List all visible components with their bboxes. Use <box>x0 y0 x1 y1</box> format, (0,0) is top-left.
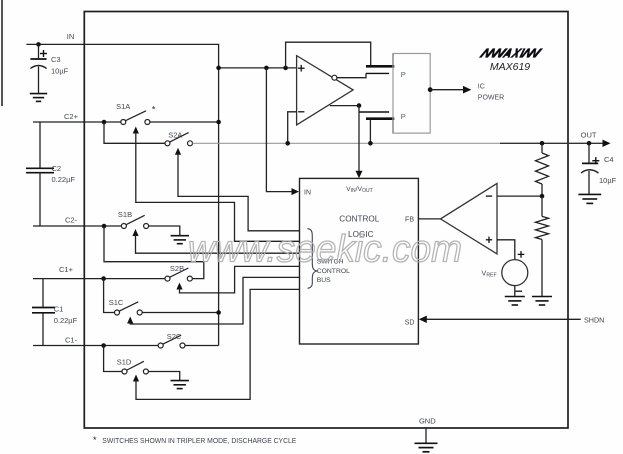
error amp + sign <box>486 237 492 243</box>
wire - input to OUT rail <box>288 112 297 144</box>
capacitor C2 (0.22uF) <box>26 122 54 226</box>
svg-text:*: * <box>93 435 97 445</box>
svg-text:SHDN: SHDN <box>584 315 604 324</box>
capacitor C3 (polarized, 10uF) <box>30 44 47 93</box>
arrowhead into IN pin <box>292 188 300 195</box>
ground at S1D <box>171 381 189 389</box>
svg-text:S1B: S1B <box>118 210 132 219</box>
op-amp comparator U2 <box>297 56 354 125</box>
svg-text:C2-: C2- <box>65 215 78 224</box>
scan artifact left edge line <box>1 0 3 106</box>
svg-text:S2B: S2B <box>170 264 184 273</box>
SHDN wire with arrowhead into SD <box>419 316 581 323</box>
node Q2 source / OUT rail <box>368 141 373 146</box>
node OUT / C4 junction <box>587 141 592 146</box>
svg-text:FB: FB <box>405 217 414 224</box>
wire to VIN/VOUT pin of logic <box>358 106 360 172</box>
node logic IN branch <box>264 66 269 71</box>
switch S2B <box>165 268 192 281</box>
wire S2C to IN rail bottom <box>185 345 219 347</box>
switch S1B <box>121 215 148 228</box>
svg-text:OUT: OUT <box>581 131 597 140</box>
control logic block U1 <box>300 178 419 344</box>
wire OUT rail dark segment <box>500 142 604 144</box>
wire FB to error amp <box>418 218 441 220</box>
svg-text:GND: GND <box>419 417 436 426</box>
node divider tap FB <box>540 194 545 199</box>
svg-text:P: P <box>401 112 406 121</box>
switch S1D <box>122 361 148 374</box>
svg-text:S1A: S1A <box>116 102 130 111</box>
svg-text:C1+: C1+ <box>59 265 74 274</box>
svg-text:IN: IN <box>304 189 311 196</box>
svg-text:VIN/VOUT: VIN/VOUT <box>346 186 373 194</box>
ground at S1B <box>171 236 189 244</box>
wire C1- pin to S2C <box>33 345 158 347</box>
node IN rail / + input rail <box>216 66 221 71</box>
wire VREF to ground <box>514 286 516 297</box>
svg-text:S2C: S2C <box>167 332 182 341</box>
voltage source VREF <box>502 260 528 286</box>
VREF + sign <box>518 251 525 258</box>
svg-text:0.22µF: 0.22µF <box>52 175 76 184</box>
switch S1A <box>121 111 150 125</box>
wire OUT rail gray segment (S2A to mid) <box>193 142 501 144</box>
S1B control arrow <box>132 229 299 253</box>
svg-text:C3: C3 <box>51 55 61 64</box>
wire comparator + input rail from IN rail <box>219 67 297 69</box>
svg-text:C2+: C2+ <box>64 112 79 121</box>
node C1- junction <box>101 343 106 348</box>
S2A control arrow <box>175 148 300 231</box>
svg-text:MAX619: MAX619 <box>490 61 530 73</box>
wire S1D to ground <box>148 372 179 381</box>
svg-text:*: * <box>152 105 156 115</box>
node S1C/IN rail <box>216 310 221 315</box>
wire C1+ branch down to S1C <box>104 279 115 313</box>
ground at R2 <box>532 297 552 306</box>
wire GND pin to ground <box>425 428 427 443</box>
node IN/C3 junction <box>36 42 41 47</box>
S1C control arrow <box>127 277 299 324</box>
comparator output bubble <box>332 75 337 80</box>
resistor R1 <box>536 143 549 196</box>
svg-text:0.22µF: 0.22µF <box>54 316 78 325</box>
node S1A/IN rail <box>216 120 221 125</box>
wire C1- branch down to S1D <box>104 346 122 372</box>
svg-text:10µF: 10µF <box>599 176 617 185</box>
svg-text:IN: IN <box>67 32 75 41</box>
error amp - sign <box>486 195 492 197</box>
transistor Q2 lower P-channel <box>359 112 394 143</box>
ground at VREF <box>505 297 525 306</box>
svg-text:BUS: BUS <box>317 277 331 284</box>
svg-text:P: P <box>401 70 406 79</box>
ground at GND pin <box>415 443 438 452</box>
wire C1+ pin to S2B <box>33 278 165 280</box>
svg-text:SWITCHES SHOWN IN TRIPLER MODE: SWITCHES SHOWN IN TRIPLER MODE, DISCHARG… <box>102 436 296 445</box>
switch S2A <box>165 133 193 146</box>
ground at C4 <box>578 194 601 203</box>
wire C2- to S2B stacking link <box>104 226 204 279</box>
svg-text:CONTROL: CONTROL <box>339 214 379 223</box>
wire IN pin rail (horizontal then down the left distribution rail) <box>26 44 218 345</box>
MAXIM logo <box>479 48 543 57</box>
resistor R2 <box>536 196 549 296</box>
switch S2C <box>158 335 185 348</box>
wire + input to VREF <box>497 240 515 260</box>
transistor Q1 upper P-channel <box>366 54 394 74</box>
svg-text:POWER: POWER <box>478 94 504 101</box>
svg-text:S1C: S1C <box>109 298 124 307</box>
OUT arrowhead <box>603 140 611 147</box>
svg-text:10µF: 10µF <box>51 67 69 76</box>
node C1+ junction <box>101 276 106 281</box>
wire logic block IN pin <box>266 68 292 192</box>
capacitor C4 (polarized, 10uF) <box>581 143 599 194</box>
S2B control arrow <box>176 266 299 293</box>
ground below C3 <box>30 94 47 102</box>
svg-text:S2A: S2A <box>168 130 182 139</box>
wire upper feedback over comparator to upper FET source <box>286 42 371 68</box>
comparator + sign <box>298 65 305 72</box>
wire C2+ branch down to S2A <box>104 122 165 143</box>
node C2- junction <box>102 224 107 229</box>
node lower output junction <box>357 103 362 108</box>
node + input junction <box>283 66 288 71</box>
wire C2+ pin to S1A <box>33 121 121 123</box>
svg-text:C1: C1 <box>54 304 64 313</box>
wire - input to divider tap <box>497 195 542 197</box>
wire comparator lower output tap <box>330 105 359 107</box>
switch control bus brace <box>308 229 317 289</box>
svg-text:C1-: C1- <box>65 335 78 344</box>
arrowhead into VIN/VOUT <box>356 171 363 179</box>
svg-text:C4: C4 <box>604 155 614 164</box>
S1A control arrow <box>133 127 300 242</box>
VREF - sign <box>515 290 522 292</box>
drain bus enclosure (gray box wire) <box>393 54 430 134</box>
wire bubble to upper FET gate <box>337 73 366 77</box>
comparator - sign <box>298 111 304 113</box>
wire S1B to ground <box>149 226 180 236</box>
IC POWER arrow <box>430 86 471 94</box>
node - input / OUT rail <box>285 141 290 146</box>
switch S1C <box>115 302 143 315</box>
svg-text:IC: IC <box>478 83 485 90</box>
node C2+ junction <box>102 120 107 125</box>
wire S1C to IN rail <box>142 312 218 314</box>
wire C2- pin to S1B <box>33 225 121 227</box>
svg-text:www.seekic.com: www.seekic.com <box>188 229 462 271</box>
capacitor C1 (0.22uF) <box>32 279 55 346</box>
svg-text:C2: C2 <box>52 164 62 173</box>
S1D control arrow <box>133 289 300 399</box>
op-amp error amplifier U3 (points left) <box>441 183 498 254</box>
wire S1A to IN rail <box>150 121 219 123</box>
svg-text:SD: SD <box>405 320 415 327</box>
node OUT rail / R1 top <box>540 141 545 146</box>
svg-text:S1D: S1D <box>117 358 132 367</box>
IC outer boundary box <box>84 12 568 429</box>
node IC power tap <box>428 87 433 92</box>
